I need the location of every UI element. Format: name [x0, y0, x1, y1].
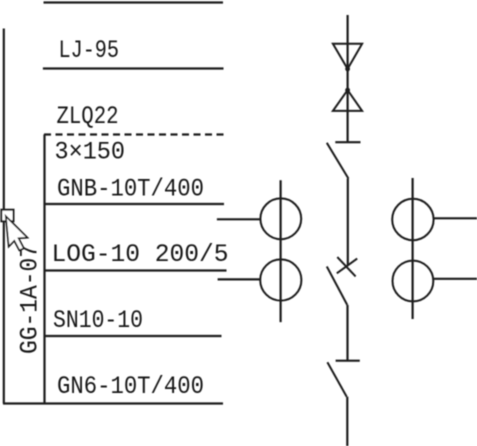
wire: leader line under LOG-10 200/5 [44, 269, 227, 271]
svg-text:GN6-10T/400: GN6-10T/400 [57, 372, 204, 401]
wire: dashed cable leader line [44, 133, 224, 135]
current transformer CT2 upper winding [392, 199, 433, 240]
node: arrester lower junction dot [345, 88, 350, 93]
wire: leader line under GNB-10T/400 [44, 203, 224, 205]
wire: CT2 lower secondary stub [434, 278, 477, 280]
circuit breaker SN10-10 contact X stroke 1 [337, 257, 355, 276]
disconnect switch GN6-10T/400 fixed contact bar [336, 360, 360, 362]
svg-text:ZLQ22: ZLQ22 [57, 102, 119, 131]
current transformer CT1 upper winding [260, 198, 301, 239]
disconnect switch GNB-10T/400 fixed contact bar [335, 141, 360, 143]
circuit breaker SN10-10 blade [327, 267, 347, 305]
svg-text:GG-1A-07: GG-1A-07 [16, 244, 45, 354]
arrester lower triangle [333, 90, 362, 111]
wire: CT1 lower secondary stub [218, 278, 261, 280]
wire: left feeder rail [3, 29, 5, 404]
wire: CT primary conductor (right group) [412, 178, 414, 319]
svg-text:SN10-10: SN10-10 [53, 306, 143, 335]
current transformer CT1 lower winding [260, 259, 301, 300]
arrester upper triangle [333, 44, 362, 69]
mouse cursor arrow [6, 216, 28, 250]
disconnect switch GNB-10T/400 blade [327, 143, 349, 179]
node: arrester upper junction dot [345, 67, 350, 72]
wire: incoming line through arrester [347, 15, 349, 142]
wire: switch to breaker [347, 179, 349, 266]
wire: bottom closing line [3, 402, 223, 404]
grip box on feeder rail [1, 210, 13, 222]
wire: label bracket vertical [43, 135, 45, 404]
wire: CT1 upper secondary stub [217, 218, 261, 220]
svg-text:LJ-95: LJ-95 [59, 36, 120, 65]
svg-text:3×150: 3×150 [55, 138, 126, 167]
wire: leader line under SN10-10 [44, 335, 222, 337]
wire: leader line under LJ-95 [43, 67, 224, 69]
svg-text:LOG-10 200/5: LOG-10 200/5 [52, 240, 229, 269]
wire: outgoing feeder line [346, 397, 348, 446]
current transformer CT2 lower winding [393, 261, 434, 302]
circuit breaker SN10-10 contact X stroke 2 [337, 259, 357, 274]
wire: breaker to lower disconnect switch [346, 305, 348, 361]
disconnect switch GN6-10T/400 blade [327, 362, 346, 396]
wire: CT2 upper secondary stub [434, 217, 477, 219]
svg-text:GNB-10T/400: GNB-10T/400 [57, 175, 204, 204]
wire: CT primary conductor (left group) [280, 180, 282, 322]
wire: top feeder leader line [44, 1, 224, 3]
